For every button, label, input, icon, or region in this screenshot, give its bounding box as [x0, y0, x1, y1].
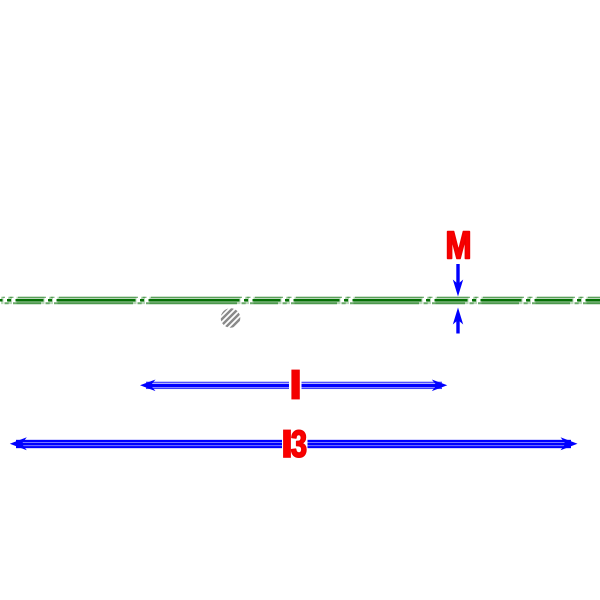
hatched circle (section point)	[213, 290, 260, 348]
dimension line I (left segment, banded stroke)	[146, 382, 289, 388]
centerline (green dash-dot axis, core stroke)	[0, 299, 600, 302]
dimension line I3 (left segment, banded stroke)	[16, 441, 282, 447]
M dimension upper arrowhead (points down to axis)	[453, 280, 463, 297]
M dimension upper arrow (shaft)	[456, 264, 459, 285]
label I3	[284, 430, 306, 457]
centerline (green dash-dot axis, lower fringe stripe)	[0, 302, 600, 304]
dimension line I right arrowhead	[432, 380, 448, 392]
dimension line I (right segment, banded stroke)	[302, 382, 443, 388]
centerline (green dash-dot axis, soft band underlay)	[0, 297, 600, 304]
dimension line I left arrowhead	[140, 380, 156, 392]
label I	[292, 370, 300, 399]
dimension line I3 right arrowhead	[561, 437, 578, 450]
label M	[448, 232, 470, 259]
dimension line I3 (right segment, banded stroke)	[308, 441, 572, 447]
centerline (green dash-dot axis, upper fringe stripe)	[0, 296, 600, 298]
M dimension lower arrow (shaft)	[456, 319, 459, 334]
M dimension lower arrowhead (points up to axis)	[453, 308, 463, 325]
dimension line I3 left arrowhead	[10, 437, 27, 450]
